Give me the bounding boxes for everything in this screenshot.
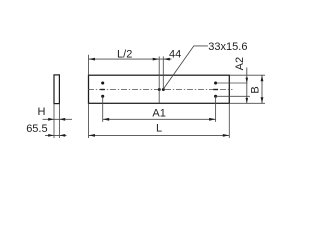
extension line mid axis bbox=[158, 56, 160, 103]
dimension line L/2 and 44 bbox=[89, 58, 172, 60]
extension line plate right bottom bbox=[228, 103, 230, 138]
arrow B up bbox=[261, 75, 264, 81]
arrow L/2 left bbox=[89, 58, 96, 61]
extension line A1 left bbox=[102, 96, 104, 122]
arrow A2 upper down bbox=[246, 78, 249, 83]
svg-text:65.5: 65.5 bbox=[26, 123, 47, 135]
hole top-right bbox=[214, 81, 217, 84]
svg-text:L/2: L/2 bbox=[117, 49, 132, 61]
dimension line B bbox=[261, 75, 263, 103]
arrow 65.5 right outside bbox=[59, 134, 65, 137]
side view rectangle bbox=[54, 75, 59, 104]
extension line left edge top bbox=[88, 55, 90, 75]
svg-text:A2: A2 bbox=[234, 57, 246, 70]
svg-text:33x15.6: 33x15.6 bbox=[208, 41, 247, 53]
plate front view outline bbox=[89, 75, 230, 103]
dimension line A1 bbox=[103, 118, 216, 120]
arrow L left bbox=[89, 134, 96, 137]
leader 33x15.6 bbox=[164, 46, 208, 89]
arrow B down bbox=[261, 97, 264, 103]
arrow 65.5 left outside bbox=[48, 134, 54, 137]
arrow A1 right bbox=[209, 118, 216, 121]
extension line bottom edge right (B) bbox=[230, 102, 265, 104]
extension line plate left bottom bbox=[88, 103, 90, 138]
extension line lower hole right bbox=[216, 95, 250, 97]
dimension line H bbox=[43, 118, 73, 120]
svg-text:B: B bbox=[249, 86, 261, 93]
arrow A2 lower down bbox=[246, 98, 249, 103]
hole top-left bbox=[101, 81, 104, 84]
arrow L right bbox=[223, 134, 230, 137]
arrow L/2 right / 44 left bbox=[153, 58, 160, 61]
centerline horizontal bbox=[88, 89, 233, 91]
hole bottom-left bbox=[101, 95, 104, 98]
extension line upper hole right bbox=[216, 82, 247, 84]
arrow H left outside bbox=[48, 118, 54, 121]
slot hole center-right bbox=[162, 88, 165, 91]
dimension line A2 bbox=[246, 68, 248, 104]
extension line slot right bbox=[162, 56, 164, 89]
svg-text:A1: A1 bbox=[152, 108, 165, 120]
dimension line L bbox=[89, 134, 230, 136]
extension line right edge top (A2/B) bbox=[230, 74, 265, 76]
svg-text:L: L bbox=[156, 122, 162, 134]
extension line A1 right bbox=[215, 96, 217, 122]
svg-text:H: H bbox=[38, 106, 46, 118]
arrow A1 left bbox=[103, 118, 110, 121]
center mark left hole column bbox=[100, 89, 105, 90]
hole bottom-right bbox=[214, 95, 217, 98]
extension line side rect right bottom bbox=[58, 104, 60, 138]
dimension line 65.5 bbox=[45, 134, 67, 136]
slot hole center-left bbox=[158, 88, 161, 91]
extension line side rect left bottom bbox=[53, 104, 55, 138]
arrow H right outside bbox=[59, 118, 65, 121]
arrow 44 right bbox=[163, 58, 170, 61]
center mark right hole column bbox=[213, 89, 218, 90]
svg-text:44: 44 bbox=[169, 49, 181, 61]
